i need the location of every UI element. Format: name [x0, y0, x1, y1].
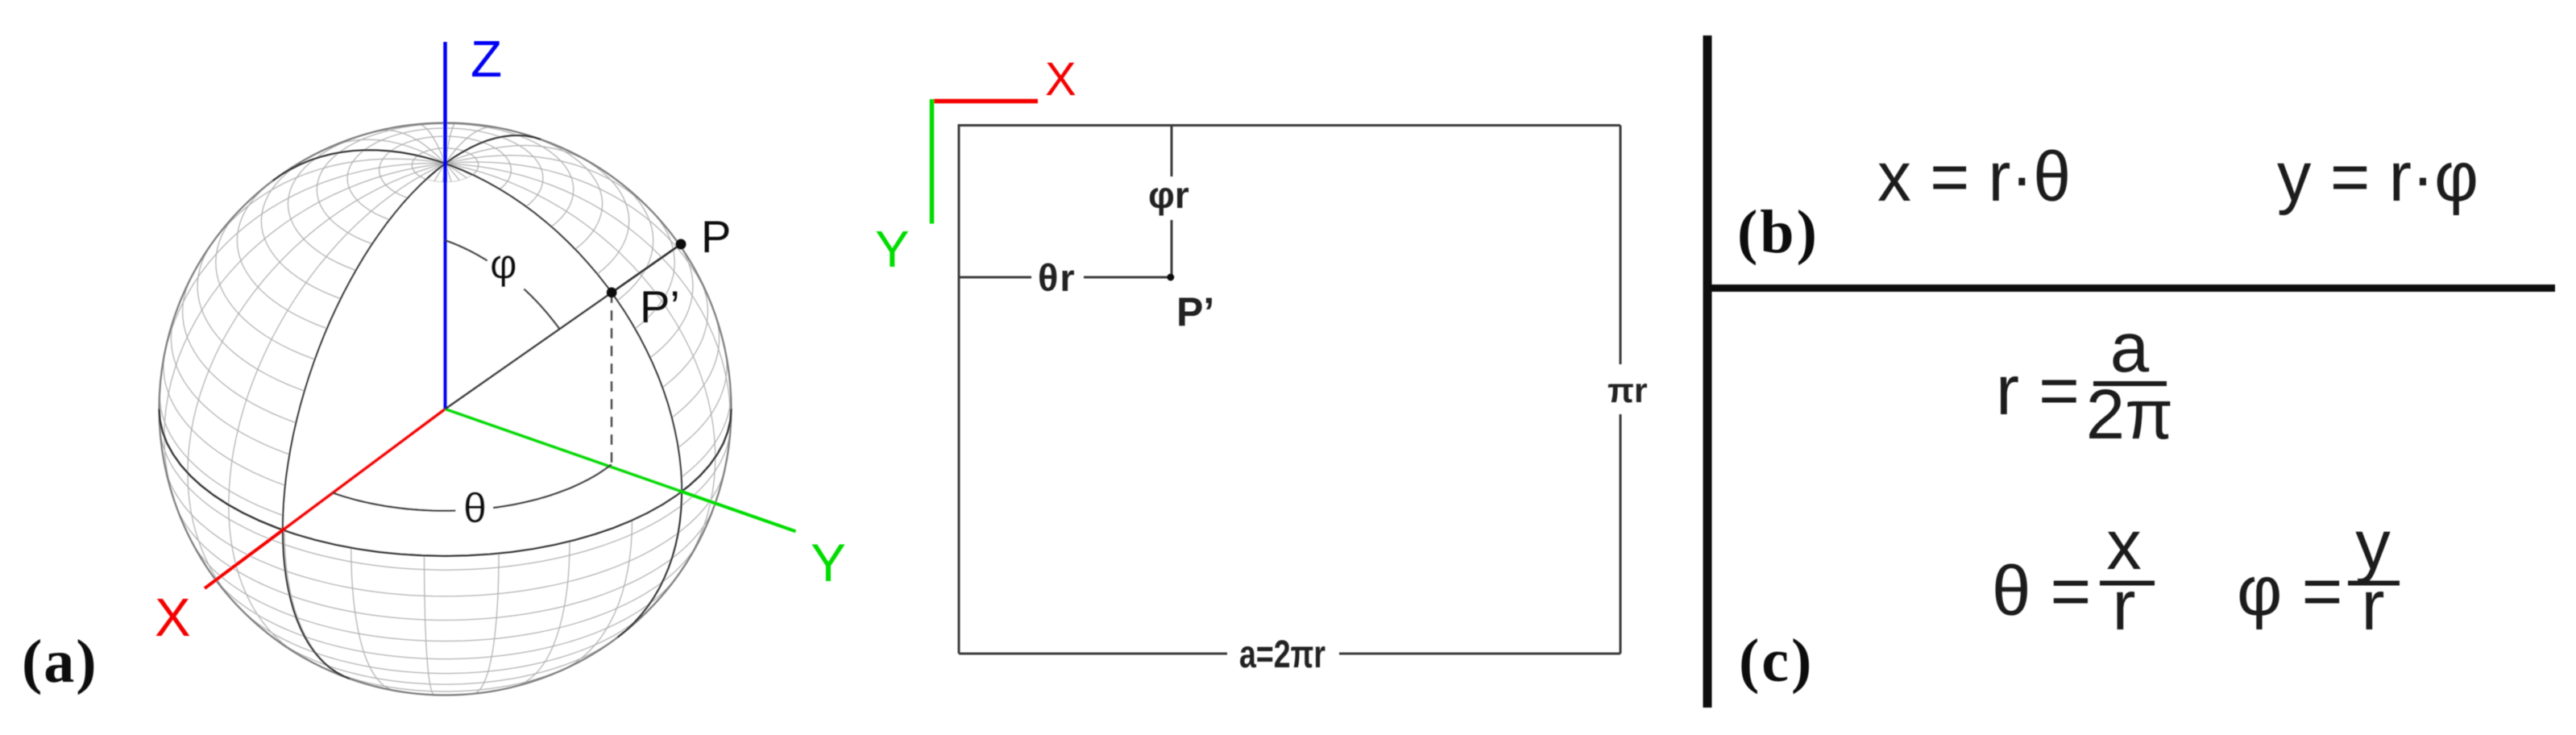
X axis indicator (red) of map — [933, 99, 1038, 104]
rectangle map: top border — [958, 124, 1621, 127]
phi-r segment (vertical, gap for label) — [1171, 126, 1173, 177]
meridian of X-Z plane (dark cut boundary) — [283, 135, 541, 679]
svg-text:y = r·φ: y = r·φ — [2277, 138, 2479, 216]
sphere wireframe: meridian arcs — [162, 123, 730, 695]
svg-text:r: r — [2113, 567, 2136, 645]
thick horizontal divider — [1707, 284, 2555, 292]
dashed projection line from P&apos; to Y axis — [611, 293, 613, 467]
svg-text:Y: Y — [875, 220, 910, 278]
point P — [676, 239, 687, 250]
svg-text:(c): (c) — [1739, 627, 1814, 695]
point P&apos; on sphere — [607, 288, 617, 298]
Y axis (green) — [446, 409, 796, 532]
point P prime (map) — [1167, 274, 1174, 281]
sphere wireframe: latitude circles — [160, 124, 731, 696]
svg-text:φr: φr — [1148, 174, 1189, 216]
theta-r segment (horizontal, gap for label) — [959, 276, 1031, 279]
svg-text:r =: r = — [1996, 351, 2080, 430]
svg-text:θ =: θ = — [1992, 552, 2091, 630]
thick vertical divider — [1703, 35, 1712, 708]
svg-text:P’: P’ — [640, 281, 680, 332]
sphere outline — [160, 123, 732, 696]
Y axis indicator (green) of map — [930, 99, 935, 224]
svg-text:(b): (b) — [1737, 198, 1819, 266]
svg-text:θr: θr — [1038, 256, 1076, 299]
Z axis (blue) — [443, 42, 447, 409]
rectangle map: right border (gap for pi-r label) — [1620, 126, 1622, 365]
svg-text:θ: θ — [463, 485, 487, 532]
svg-text:πr: πr — [1607, 372, 1648, 410]
svg-text:(a): (a) — [22, 628, 98, 696]
X axis (red) — [205, 409, 446, 589]
rectangle map: left border — [958, 126, 960, 654]
meridian of Y-Z plane through P&apos; (dark cut boundary) — [273, 150, 682, 637]
svg-text:φ: φ — [490, 241, 517, 288]
angle theta arc (between X and Y axes) — [333, 493, 456, 511]
svg-text:Z: Z — [471, 30, 502, 88]
svg-text:2π: 2π — [2086, 376, 2173, 454]
svg-text:r: r — [2362, 567, 2385, 645]
svg-text:P’: P’ — [1176, 289, 1214, 334]
rectangle map: bottom border (gap for a=2pi-r label) — [959, 653, 1227, 655]
svg-text:Y: Y — [811, 533, 846, 592]
octant cutout (white wedge) — [283, 175, 682, 556]
line from origin to point P — [446, 244, 682, 409]
svg-text:φ =: φ = — [2237, 552, 2342, 630]
svg-text:P: P — [701, 211, 731, 262]
equator front arc (dark, cut boundary) — [160, 409, 732, 556]
svg-text:X: X — [155, 588, 191, 648]
svg-text:x = r·θ: x = r·θ — [1877, 138, 2071, 216]
angle phi arc (between Z axis and OP) — [446, 240, 487, 260]
svg-text:X: X — [1045, 53, 1076, 106]
svg-text:a=2πr: a=2πr — [1239, 633, 1325, 676]
